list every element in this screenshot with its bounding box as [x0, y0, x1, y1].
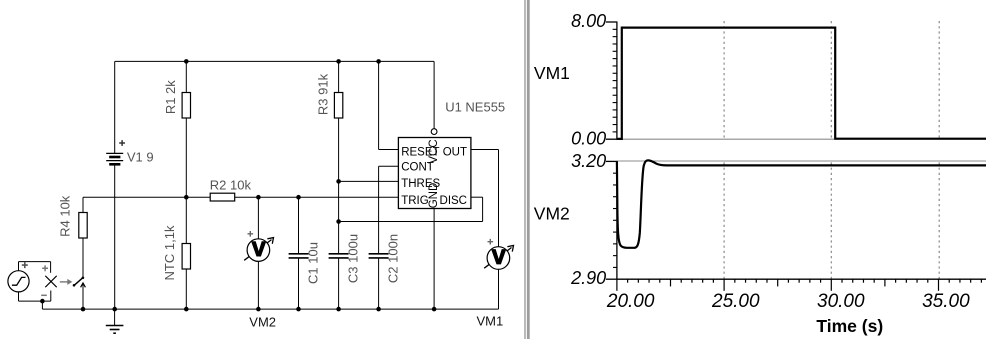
battery plus sign	[119, 140, 125, 146]
chart dashed gridlines	[724, 21, 939, 279]
switch control plus sign	[42, 265, 48, 271]
thermistor NTC	[182, 244, 190, 270]
wire VG1 bottom lead bracket	[19, 291, 51, 302]
voltmeter VM2 plus sign	[248, 231, 254, 237]
node junctions top rail	[184, 59, 381, 64]
node junctions mid rail	[184, 195, 301, 200]
node junctions bottom rail	[81, 307, 437, 312]
switch SW1 lever contact	[73, 277, 86, 288]
chart time axis ticks	[617, 279, 981, 291]
wire VM2 bottom lead	[257, 261, 259, 309]
wire R4 top bend	[82, 197, 84, 212]
resistor R2	[210, 193, 235, 201]
wire DISC stub	[471, 196, 483, 198]
plus sign of VG1	[22, 262, 28, 268]
capacitor C2	[369, 254, 389, 258]
wire VG1 minus drop to bottom rail	[41, 301, 43, 309]
resistor R4	[79, 213, 87, 239]
pane splitter	[525, 0, 528, 339]
chart VM2 topline gray	[617, 160, 986, 162]
op-amp U1 NE555 box	[398, 138, 471, 209]
node VG1 minus junction	[40, 299, 45, 304]
svg-text:25.00: 25.00	[711, 291, 760, 312]
switch SW1 control X symbol	[45, 276, 56, 287]
svg-text:C1 10u: C1 10u	[306, 242, 321, 284]
wire VM1 bottom lead	[498, 269, 500, 309]
chart VM1 baseline gray	[617, 138, 986, 140]
node DISC junction	[336, 219, 341, 224]
svg-text:R2 10k: R2 10k	[210, 178, 252, 193]
svg-text:3.20: 3.20	[571, 151, 606, 171]
voltmeter VM1 circle	[487, 247, 510, 270]
svg-text:R3 91k: R3 91k	[316, 73, 331, 115]
voltmeter VM1 plus sign	[488, 239, 494, 245]
wire RESET stub	[379, 149, 399, 151]
svg-text:TRIG: TRIG	[401, 195, 429, 207]
svg-text:VM2: VM2	[249, 314, 276, 329]
svg-text:U1 NE555: U1 NE555	[445, 99, 505, 114]
svg-text:R1 2k: R1 2k	[163, 80, 178, 114]
capacitor C3	[329, 254, 349, 258]
wire DISC return to C3 node	[339, 221, 483, 223]
svg-text:V1 9: V1 9	[127, 150, 154, 165]
wire left rail top (battery +)	[114, 61, 116, 153]
wire R3 top lead	[338, 61, 340, 92]
resistor R3	[334, 93, 342, 119]
wire GND pin drop to bottom rail	[433, 209, 435, 310]
resistor R1	[182, 93, 190, 119]
svg-text:VCC: VCC	[428, 139, 440, 163]
svg-text:NTC 1,1k: NTC 1,1k	[162, 225, 177, 280]
chart VM1 y minor ticks	[613, 29, 617, 132]
trace VM2 dip wave	[617, 160, 986, 247]
wire DISC down bend	[482, 197, 484, 221]
trace VM1 square wave	[617, 28, 986, 139]
svg-text:20.00: 20.00	[606, 291, 655, 312]
chart time x-axis	[617, 278, 986, 280]
wire bottom rail (ground net)	[42, 308, 498, 310]
wire switch to bottom rail	[82, 284, 84, 309]
svg-text:2.90: 2.90	[570, 268, 606, 288]
svg-text:VM1: VM1	[477, 313, 504, 328]
svg-text:OUT: OUT	[443, 147, 467, 159]
wire VM2 top lead	[257, 197, 259, 239]
wire VCC drop from top rail	[433, 61, 435, 128]
svg-text:C3 100u: C3 100u	[346, 234, 361, 283]
wire THRES stub	[339, 180, 399, 182]
node THRES junction	[336, 179, 341, 184]
svg-text:DISC: DISC	[440, 195, 467, 207]
wire C3 bottom lead	[338, 258, 340, 309]
wire C1 top lead	[298, 197, 300, 254]
svg-text:VM2: VM2	[534, 203, 570, 223]
wire top rail (V+ net)	[115, 60, 434, 62]
svg-text:VM1: VM1	[534, 63, 570, 83]
svg-text:8.00: 8.00	[571, 11, 606, 31]
svg-text:C2 100n: C2 100n	[386, 234, 401, 283]
wire R3 bottom lead / node THRES column	[338, 118, 340, 254]
svg-text:R4 10k: R4 10k	[58, 195, 73, 237]
wire NTC top lead	[185, 197, 187, 243]
generator VG1 circle	[8, 271, 29, 292]
wire R4 bottom lead to switch	[82, 238, 84, 278]
battery V1 plates	[106, 153, 123, 164]
wire R1 top lead	[185, 61, 187, 92]
chart VM1 y-axis	[606, 22, 617, 140]
wire mid rail (TRIG net)	[83, 196, 398, 198]
wire CONT drop to C2	[378, 166, 380, 254]
wire CONT stub	[379, 165, 399, 167]
pin VCC bubble	[431, 129, 437, 135]
wire OUT stub	[471, 149, 499, 151]
chart VM2 y-axis	[606, 161, 617, 279]
ground symbol	[106, 309, 124, 333]
voltmeter VM1 arrow	[484, 248, 511, 269]
wire C1 bottom lead	[298, 258, 300, 309]
voltmeter VM2 arrow	[244, 240, 271, 261]
wire C2 bottom lead	[378, 258, 380, 309]
svg-text:GND: GND	[428, 183, 440, 209]
wire left rail bottom (battery - to ground rail)	[114, 164, 116, 309]
wire RESET drop from top rail	[378, 61, 380, 149]
wire VG1 top lead bracket	[19, 262, 51, 273]
switch actuation arrow	[60, 279, 73, 285]
wire R1 bottom lead to mid rail	[185, 118, 187, 197]
switch control minus sign	[41, 294, 47, 296]
voltmeter VM2 circle	[247, 239, 270, 262]
wire NTC bottom lead	[185, 269, 187, 309]
svg-text:30.00: 30.00	[817, 291, 865, 312]
svg-text:Time (s): Time (s)	[816, 316, 883, 336]
wire OUT drop to VM1	[498, 150, 500, 247]
svg-text:35.00: 35.00	[922, 291, 970, 312]
capacitor C1	[289, 254, 309, 258]
chart VM2 y minor ticks	[613, 173, 617, 267]
svg-text:0.00: 0.00	[571, 129, 606, 149]
